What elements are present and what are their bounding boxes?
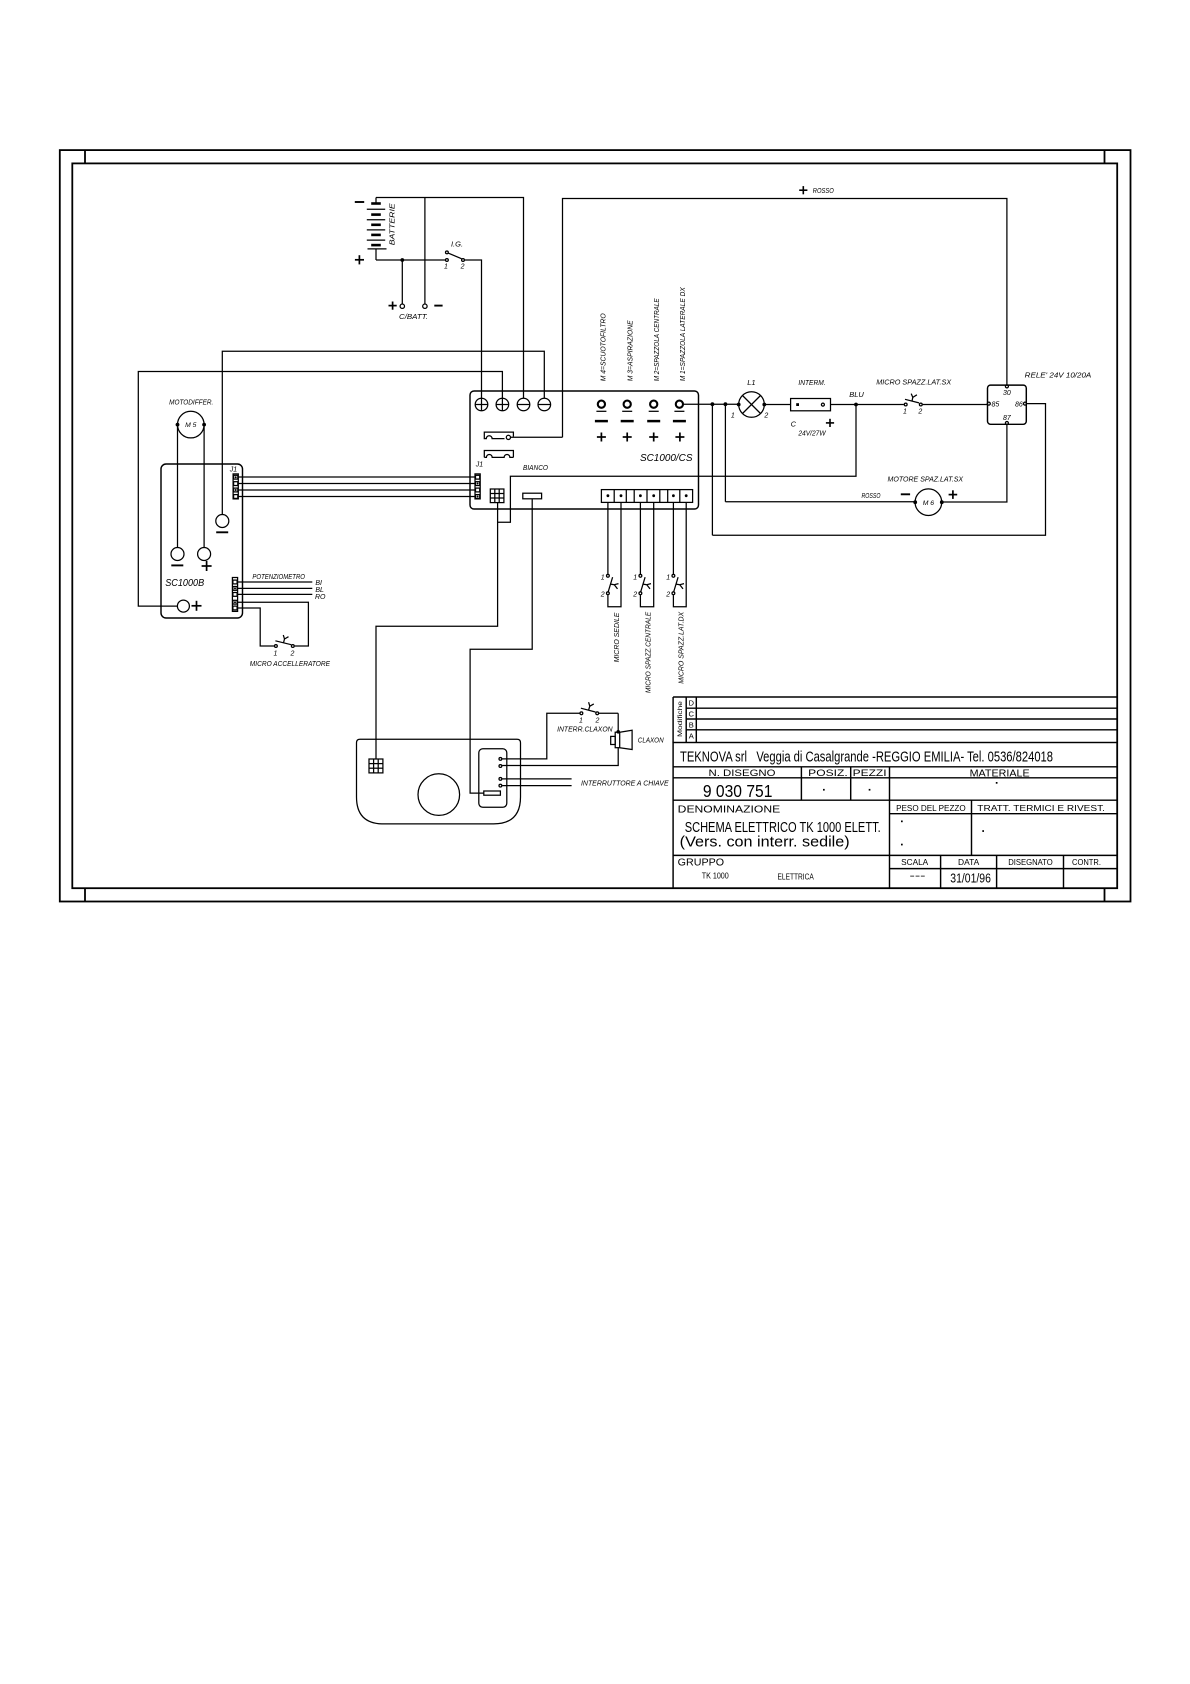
junction battery positive / C-BATT xyxy=(400,258,404,262)
svg-text:J1: J1 xyxy=(475,462,484,469)
svg-text:RO: RO xyxy=(315,594,326,601)
switch MICRO SPAZZ.CENTRALE xyxy=(639,574,651,594)
svg-text:2: 2 xyxy=(665,591,670,598)
L1 pin 1 label xyxy=(731,413,735,420)
svg-text:1: 1 xyxy=(903,408,907,415)
connector J1 on SC1000B xyxy=(233,474,238,499)
svg-text:ELETTRICA: ELETTRICA xyxy=(778,871,815,881)
micro spazz.lat.dx pin 1 label xyxy=(666,575,670,582)
wire J1 bundle line 2 xyxy=(238,483,475,485)
wire J1 bundle line 1 xyxy=(238,476,475,478)
key switch pin 3 xyxy=(499,778,502,781)
internal grid connector of SC1000/CS xyxy=(490,489,504,503)
label M3=ASPIRAZIONE xyxy=(626,319,635,381)
INTERRUTTORE A CHIAVE label xyxy=(581,778,670,787)
svg-text:30: 30 xyxy=(1003,390,1011,397)
modifiche revision table xyxy=(673,697,1117,743)
switch INTERR.CLAXON xyxy=(580,702,599,714)
svg-text:SC1000B: SC1000B xyxy=(165,578,204,589)
svg-text:M 3=ASPIRAZIONE: M 3=ASPIRAZIONE xyxy=(626,319,635,381)
key switch block xyxy=(479,749,507,808)
wire J1 bundle line 4 xyxy=(238,496,475,498)
wire accelerator pin 4 to switch contact 2 xyxy=(238,602,309,646)
wire INTERM to BLU node xyxy=(831,404,857,406)
svg-text:1: 1 xyxy=(274,650,278,657)
BIANCO label xyxy=(523,463,548,472)
svg-text:C: C xyxy=(791,419,797,428)
node BLU xyxy=(854,403,858,407)
svg-text:MOTORE SPAZ.LAT.SX: MOTORE SPAZ.LAT.SX xyxy=(888,475,965,484)
DENOMINAZIONE header xyxy=(678,804,781,816)
MICRO ACCELLERATORE label xyxy=(250,659,331,668)
I.G. pin 1 label xyxy=(444,264,448,271)
wire speaker return to key pin 2 xyxy=(502,748,618,766)
wire claxon switch to speaker xyxy=(599,712,618,714)
svg-text:M 5: M 5 xyxy=(185,422,197,429)
M6 minus mark xyxy=(901,493,910,495)
svg-text:2: 2 xyxy=(917,408,922,415)
M6 plus mark xyxy=(949,490,958,499)
svg-text:RELE' 24V 10/20A: RELE' 24V 10/20A xyxy=(1025,370,1092,379)
gruppo value ELETTRICA xyxy=(778,871,815,881)
wire connector pin 5 down to micro spazz.lat.dx xyxy=(672,502,674,574)
L1 pin 2 label xyxy=(763,413,768,420)
svg-text:POTENZIOMETRO: POTENZIOMETRO xyxy=(252,572,305,581)
motor M5 MOTODIFFER. xyxy=(176,411,206,438)
battery BATTERIE xyxy=(367,198,387,261)
wire key pin 1 to claxon switch xyxy=(502,713,579,759)
wire micro spazz.lat.dx return to pin 6 xyxy=(673,502,686,606)
MATERIALE header xyxy=(970,768,1030,780)
wire connector pin 3 down to micro spazz.centrale xyxy=(639,502,641,574)
svg-text:1: 1 xyxy=(444,264,448,271)
battery plus input mark xyxy=(192,601,202,611)
svg-text:2: 2 xyxy=(289,650,294,657)
relay RELE' 24V 10/20A xyxy=(987,385,1026,425)
switch MICRO SPAZZ.LAT.SX xyxy=(904,394,922,406)
svg-text:INTERR.CLAXON: INTERR.CLAXON xyxy=(557,724,613,733)
PEZZI header xyxy=(853,768,887,779)
motor terminal M2 xyxy=(647,401,660,442)
switch MICRO SEDILE xyxy=(607,574,619,594)
svg-text:M 6: M 6 xyxy=(923,500,935,507)
switch I.G. xyxy=(446,251,465,261)
DATA header xyxy=(958,858,980,867)
wire ROSSO node B to motor M6 minus xyxy=(725,501,915,503)
svg-text:M 2=SPAZZOLA CENTRALE: M 2=SPAZZOLA CENTRALE xyxy=(652,297,661,381)
relay pin 30 label xyxy=(1003,390,1011,397)
materiale dot xyxy=(996,782,998,784)
INTERM. label xyxy=(798,378,825,387)
micro spazz.lat.dx pin 2 label xyxy=(665,591,670,598)
label M2=SPAZZOLA CENTRALE xyxy=(652,297,661,381)
switch MICRO ACCELLERATORE xyxy=(275,635,295,647)
micro spazz.centrale pin 2 label xyxy=(632,591,637,598)
C/BATT. label xyxy=(399,312,428,321)
claxon terminal junction xyxy=(616,730,620,734)
svg-text:85: 85 xyxy=(992,401,1000,408)
POSIZ. header xyxy=(808,768,848,779)
label M1=SPAZZOLA LATERALE DX xyxy=(678,286,687,381)
svg-text:87: 87 xyxy=(1003,415,1012,422)
M6 designator text xyxy=(923,500,935,507)
screw terminal 2 (plus) xyxy=(496,398,509,411)
micro accelleratore pin 2 label xyxy=(289,650,294,657)
svg-text:L1: L1 xyxy=(747,378,755,387)
svg-text:TEKNOVA srl Veggia di Casalg: TEKNOVA srl Veggia di Casalgrande -REGGI… xyxy=(680,749,1053,766)
svg-text:J1: J1 xyxy=(229,466,238,473)
controller box SC1000/CS xyxy=(470,391,699,509)
svg-text:MICRO SPAZZ.CENTRALE: MICRO SPAZZ.CENTRALE xyxy=(644,611,653,693)
wire J1 bundle line 3 xyxy=(238,489,475,491)
J1 label (SC1000/CS) xyxy=(475,462,484,469)
title block outline and cells xyxy=(673,743,1117,889)
svg-text:M 1=SPAZZOLA LATERALE DX: M 1=SPAZZOLA LATERALE DX xyxy=(678,286,687,381)
MICRO SPAZZ.CENTRALE label xyxy=(644,611,653,693)
denomination line 2 xyxy=(680,834,850,850)
screw terminal 4 (minus) xyxy=(538,398,551,411)
+ROSSO net label xyxy=(813,186,834,195)
interr.claxon pin 2 label xyxy=(594,718,599,725)
scala value --- xyxy=(910,871,926,882)
micro accelleratore pin 1 label xyxy=(274,650,278,657)
wire potentiometer BI xyxy=(238,581,313,583)
relay pin 87 label xyxy=(1003,415,1012,422)
wire BLU to micro switch xyxy=(856,404,904,406)
fuse 1 xyxy=(484,432,513,439)
label M4=SCUOTOFILTRO xyxy=(598,313,607,381)
CONTR. header xyxy=(1072,858,1101,867)
motor terminal M3 xyxy=(621,401,634,442)
body grid connector xyxy=(369,759,383,773)
svg-text:MICRO SEDILE: MICRO SEDILE xyxy=(612,612,621,663)
svg-text:ROSSO: ROSSO xyxy=(862,491,881,500)
wire L1 to INTERM xyxy=(764,404,790,406)
key switch pin 1 xyxy=(499,758,502,761)
SC1000B label xyxy=(165,578,204,589)
svg-text:D: D xyxy=(689,699,695,708)
peso dot 2 xyxy=(901,844,903,846)
svg-text:TRATT. TERMICI E RIVEST.: TRATT. TERMICI E RIVEST. xyxy=(977,804,1105,813)
svg-text:2: 2 xyxy=(600,591,605,598)
junction node B (to ROSSO motor wire) xyxy=(724,402,728,406)
svg-text:C: C xyxy=(689,710,695,719)
bottom return wire xyxy=(712,404,1045,536)
svg-text:MICRO SPAZZ.LAT.SX: MICRO SPAZZ.LAT.SX xyxy=(876,378,952,387)
svg-text:ROSSO: ROSSO xyxy=(813,186,834,195)
relay pin 86 label xyxy=(1015,401,1023,408)
output connector strip on SC1000/CS xyxy=(601,490,692,503)
svg-text:CLAXON: CLAXON xyxy=(638,736,664,745)
MICRO SPAZZ.LAT.DX label xyxy=(676,611,685,684)
INTERR.CLAXON label xyxy=(557,724,613,733)
internal connector (key switch lead) xyxy=(523,493,542,499)
wire top line to C/BATT minus xyxy=(424,198,426,304)
denomination line 1 xyxy=(685,820,881,836)
wire junction to C/BATT plus xyxy=(401,260,403,304)
svg-text:MATERIALE: MATERIALE xyxy=(970,768,1030,780)
svg-text:B: B xyxy=(689,720,694,729)
svg-text:MICRO SPAZZ.LAT.DX: MICRO SPAZZ.LAT.DX xyxy=(676,611,685,684)
svg-text:1: 1 xyxy=(731,413,735,420)
svg-text:SC1000/CS: SC1000/CS xyxy=(640,453,693,464)
BIANCO wire (BLU node to internal) xyxy=(498,405,856,523)
svg-text:1: 1 xyxy=(633,575,637,582)
C/BATT plus mark xyxy=(389,302,397,310)
MICRO SPAZZ.LAT.SX label xyxy=(876,378,952,387)
motor terminal M1 xyxy=(673,401,686,442)
svg-text:TK 1000: TK 1000 xyxy=(702,871,729,881)
N. DISEGNO header xyxy=(709,768,776,779)
wire potentiometer RO xyxy=(238,593,313,595)
wire accelerator pin 5 to switch contact 1 xyxy=(238,608,275,646)
GRUPPO header xyxy=(678,857,724,869)
TRATT. TERMICI E RIVEST. header xyxy=(977,804,1105,813)
M5 plus terminal mark xyxy=(202,561,212,571)
svg-text:M 4=SCUOTOFILTRO: M 4=SCUOTOFILTRO xyxy=(598,313,607,381)
svg-text:86: 86 xyxy=(1015,401,1023,408)
wire fuse 1 to +ROSSO riser xyxy=(511,436,563,438)
micro spazz.lat.sx pin 2 label xyxy=(917,408,922,415)
svg-text:24V/27W: 24V/27W xyxy=(797,430,827,437)
company line text xyxy=(680,749,1053,766)
svg-text:I.G.: I.G. xyxy=(451,240,463,249)
lamp L1 xyxy=(737,392,766,418)
BI wire label xyxy=(315,580,322,587)
wire relay 87 to motor M6 plus xyxy=(942,424,1007,502)
battery minus input mark xyxy=(216,531,228,533)
svg-text:2: 2 xyxy=(763,413,768,420)
wire potentiometer BL xyxy=(238,587,313,589)
wire M1 terminal to lamp L1 xyxy=(683,403,739,405)
svg-text:BIANCO: BIANCO xyxy=(523,463,548,472)
wire connector pin 1 down to micro sedile xyxy=(607,502,609,574)
key switch internal connector xyxy=(484,791,501,795)
wire micro spazz.centrale return to pin 4 xyxy=(640,502,653,606)
pezzi dot xyxy=(869,789,871,791)
svg-text:2: 2 xyxy=(632,591,637,598)
SC1000/CS label xyxy=(640,453,693,464)
wire node A down to bottom return xyxy=(711,404,713,535)
M5 minus terminal mark xyxy=(171,564,183,566)
svg-text:GRUPPO: GRUPPO xyxy=(678,857,724,869)
svg-text:BI: BI xyxy=(315,580,322,587)
tratt dot xyxy=(982,830,984,832)
wire speaker feed down xyxy=(617,713,619,732)
BLU net label xyxy=(849,390,864,399)
MICRO SEDILE label xyxy=(612,612,621,663)
svg-text:INTERRUTTORE A CHIAVE: INTERRUTTORE A CHIAVE xyxy=(581,778,670,787)
SC1000B terminal (M5 minus) xyxy=(171,548,184,561)
svg-text:BL: BL xyxy=(315,587,324,594)
SC1000B terminal (M5 plus) xyxy=(198,548,211,561)
wire M5 right to terminal plus xyxy=(203,425,205,548)
svg-text:DENOMINAZIONE: DENOMINAZIONE xyxy=(678,804,781,816)
wire key pin 4 lead xyxy=(502,785,571,787)
I.G. pin 2 label xyxy=(460,264,465,271)
svg-text:1: 1 xyxy=(601,575,605,582)
relay label RELE' 24V 10/20A xyxy=(1025,370,1092,379)
machine body outline xyxy=(357,739,521,824)
screw terminal 3 (minus) xyxy=(517,398,530,411)
junction node A (to bottom return) xyxy=(711,402,715,406)
fuse 2 (spare) xyxy=(484,451,513,458)
wire SC1000B minus terminal to terminal 4 xyxy=(222,351,544,514)
wire SC1000B plus terminal to terminal 2 xyxy=(138,372,502,607)
svg-text:DISEGNATO: DISEGNATO xyxy=(1008,858,1052,867)
MOTODIFFER. label xyxy=(169,398,213,407)
wire grid connector down to body grid xyxy=(376,503,498,760)
svg-text:1: 1 xyxy=(666,575,670,582)
connector C/BATT. minus pin xyxy=(423,304,427,308)
connector C/BATT. plus pin xyxy=(400,304,404,308)
PESO DEL PEZZO header xyxy=(896,804,966,813)
M5 designator text xyxy=(185,422,197,429)
C/BATT minus mark xyxy=(434,305,442,307)
screw terminal 1 (plus) xyxy=(475,398,488,411)
INTERM value 24V/27W xyxy=(797,430,827,437)
wire micro switch to relay 85 xyxy=(923,404,988,406)
svg-text:BATTERIE: BATTERIE xyxy=(390,203,397,245)
TITLE BLOCK xyxy=(673,697,1117,888)
wire I.G. to SC1000/CS terminal 1 xyxy=(465,260,482,398)
wire internal connector to key switch xyxy=(470,499,532,793)
gruppo value TK 1000 xyxy=(702,871,729,881)
svg-text:CONTR.: CONTR. xyxy=(1072,858,1101,867)
wire micro sedile return to pin 2 xyxy=(608,502,621,606)
svg-text:N. DISEGNO: N. DISEGNO xyxy=(709,768,776,779)
ROSSO wire label xyxy=(862,491,881,500)
svg-text:2: 2 xyxy=(460,264,465,271)
SCALA header xyxy=(901,858,929,867)
svg-text:PESO DEL PEZZO: PESO DEL PEZZO xyxy=(896,804,966,813)
svg-text:9 030 751: 9 030 751 xyxy=(703,781,773,801)
key switch pin 2 xyxy=(499,765,502,768)
DISEGNATO header xyxy=(1008,858,1052,867)
posiz dot xyxy=(823,789,825,791)
flasher INTERM. xyxy=(791,399,831,411)
J1 label (SC1000B) xyxy=(229,466,238,473)
switch MICRO SPAZZ.LAT.DX xyxy=(672,574,684,594)
CLAXON label xyxy=(638,736,664,745)
interr.claxon pin 1 label xyxy=(579,718,583,725)
wire battery positive to switch I.G. xyxy=(376,259,445,261)
wire M5 left to terminal minus xyxy=(177,425,179,548)
MOTORE SPAZ.LAT.SX label xyxy=(888,475,965,484)
battery minus polarity mark xyxy=(355,201,364,203)
micro sedile pin 2 label xyxy=(600,591,605,598)
svg-text:C/BATT.: C/BATT. xyxy=(399,312,428,321)
SC1000B terminal (battery minus input) xyxy=(216,515,229,528)
relay pin 85 label xyxy=(992,401,1000,408)
battery label BATTERIE xyxy=(390,203,397,245)
battery plus polarity mark xyxy=(355,255,364,264)
peso dot 1 xyxy=(901,821,903,823)
motor terminal M4 xyxy=(595,401,608,442)
svg-text:INTERM.: INTERM. xyxy=(798,378,825,387)
drawing number 9 030 751 xyxy=(703,781,773,801)
BL wire label xyxy=(315,587,324,594)
svg-text:PEZZI: PEZZI xyxy=(853,768,887,779)
RO wire label xyxy=(315,594,326,601)
data value 31/01/96 xyxy=(950,870,991,885)
wire battery negative to SC1000/CS terminal 3 xyxy=(376,198,524,399)
micro spazz.centrale pin 1 label xyxy=(633,575,637,582)
key switch pin 4 xyxy=(499,784,502,787)
wire node B down to ROSSO xyxy=(724,404,726,502)
net +ROSSO wire from fuse to relay 30 xyxy=(563,199,1007,438)
I.G. label xyxy=(451,240,463,249)
svg-text:MOTODIFFER.: MOTODIFFER. xyxy=(169,398,213,407)
svg-text:DATA: DATA xyxy=(958,858,980,867)
svg-text:31/01/96: 31/01/96 xyxy=(950,870,991,885)
svg-text:BLU: BLU xyxy=(849,390,864,399)
POTENZIOMETRO label xyxy=(252,572,305,581)
micro spazz.lat.sx pin 1 label xyxy=(903,408,907,415)
micro sedile pin 1 label xyxy=(601,575,605,582)
steering wheel circle xyxy=(418,774,460,816)
potentiometer connector on SC1000B xyxy=(232,578,237,612)
INTERM pin C label xyxy=(791,419,797,428)
motor M6 MOTORE SPAZ.LAT.SX xyxy=(913,489,943,516)
connector J1 on SC1000/CS xyxy=(475,474,480,499)
+ROSSO plus mark xyxy=(799,186,807,194)
svg-text:POSIZ.: POSIZ. xyxy=(808,768,848,779)
speaker CLAXON xyxy=(611,730,632,749)
svg-text:---: --- xyxy=(910,871,926,882)
L1 label xyxy=(747,378,755,387)
controller box SC1000B xyxy=(161,464,243,618)
svg-text:Modifiche: Modifiche xyxy=(678,700,684,737)
svg-text:(Vers. con interr. sedile): (Vers. con interr. sedile) xyxy=(680,834,850,850)
svg-text:SCALA: SCALA xyxy=(901,858,929,867)
svg-text:MICRO ACCELLERATORE: MICRO ACCELLERATORE xyxy=(250,659,331,668)
INTERM pin plus mark xyxy=(826,419,834,427)
wire key pin 3 lead xyxy=(502,778,571,780)
SC1000B terminal (battery plus input) xyxy=(177,600,189,612)
